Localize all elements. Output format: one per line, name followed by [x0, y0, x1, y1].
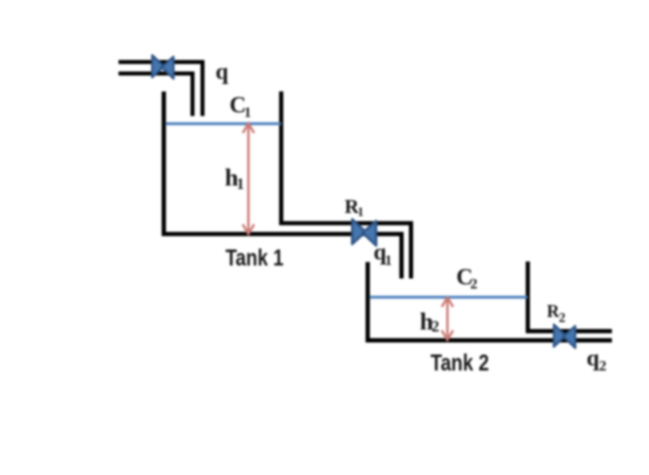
- tank 1 left wall and bottom continuing into pipe down-bend: [164, 92, 402, 279]
- svg-text:1: 1: [244, 105, 251, 121]
- svg-text:2: 2: [599, 359, 607, 375]
- tank 2 water surface line: [370, 296, 528, 299]
- tank 2 right wall and outlet pipe top wall: [528, 262, 612, 332]
- tank 1 water surface line: [166, 122, 282, 125]
- valve R1: [352, 219, 376, 245]
- svg-text:q: q: [216, 59, 229, 84]
- inlet valve: [152, 55, 174, 79]
- svg-text:2: 2: [432, 319, 440, 336]
- svg-text:2: 2: [559, 310, 566, 325]
- svg-text:1: 1: [237, 176, 245, 193]
- tank 2 left wall and bottom continuing to outlet pipe bottom wall: [368, 262, 612, 340]
- svg-text:2: 2: [470, 277, 477, 293]
- svg-text:Tank 1: Tank 1: [226, 245, 284, 271]
- inlet pipe top wall: [119, 62, 203, 116]
- level arrow h2 (double headed): [442, 298, 453, 340]
- svg-text:Tank 2: Tank 2: [431, 350, 490, 376]
- svg-text:1: 1: [358, 205, 364, 219]
- svg-text:1: 1: [385, 253, 392, 269]
- valve R2: [554, 325, 576, 349]
- inlet pipe bottom wall: [119, 74, 193, 117]
- tank 1 right wall and outlet pipe top wall with down-bend: [281, 91, 411, 278]
- svg-text:q: q: [587, 346, 600, 371]
- level arrow h1 (double headed): [243, 124, 254, 234]
